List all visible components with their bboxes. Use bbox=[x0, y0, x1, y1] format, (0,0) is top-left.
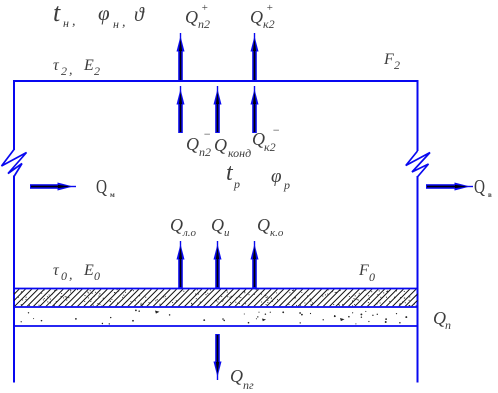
svg-text:E: E bbox=[83, 57, 94, 74]
svg-text:0: 0 bbox=[94, 269, 100, 283]
svg-text:пг: пг bbox=[243, 378, 254, 392]
svg-text:τ: τ bbox=[53, 57, 60, 74]
floor slab: hatched band (concrete) bbox=[0, 289, 436, 308]
svg-text:0: 0 bbox=[369, 270, 375, 284]
label Qv (ventilation flux right) bbox=[474, 176, 492, 199]
wire: right wall upper segment bbox=[417, 80, 419, 151]
svg-text:Q: Q bbox=[257, 215, 270, 235]
label Qko bbox=[257, 215, 284, 239]
label F0 bbox=[358, 262, 375, 284]
arrow Qk.o (up, above floor) bbox=[251, 241, 259, 288]
label t_p (indoor temp) bbox=[226, 160, 240, 191]
wire: left wall upper segment bbox=[13, 80, 15, 150]
svg-text:п2: п2 bbox=[198, 17, 210, 31]
arrow Qkond (up, below cover) bbox=[214, 86, 222, 133]
svg-text:Q: Q bbox=[474, 176, 485, 198]
label Qk2- bbox=[252, 123, 280, 154]
label theta bbox=[134, 4, 145, 26]
svg-text:F: F bbox=[383, 51, 394, 68]
wire: soil band bottom line bbox=[13, 325, 419, 327]
label Qp2- bbox=[186, 127, 211, 159]
floor slab: stipple dots in hatch band bbox=[14, 289, 417, 306]
svg-text:Q: Q bbox=[211, 215, 224, 235]
label tau2, E2 bbox=[53, 57, 100, 78]
svg-text:+: + bbox=[201, 2, 208, 14]
wire: right wall lower segment bbox=[417, 176, 419, 383]
break symbol: left wall zigzag bbox=[2, 150, 27, 177]
svg-text:и: и bbox=[224, 227, 230, 239]
svg-text:Q: Q bbox=[96, 176, 107, 198]
svg-text:0: 0 bbox=[61, 269, 67, 283]
arrow Qi (up, above floor) bbox=[214, 241, 222, 288]
svg-text:р: р bbox=[283, 178, 290, 192]
svg-text:Q: Q bbox=[186, 134, 199, 154]
svg-text:Q: Q bbox=[250, 7, 263, 27]
svg-text:+: + bbox=[266, 2, 273, 14]
label phi_n, (outdoor humidity) bbox=[98, 1, 126, 31]
svg-text:ϑ: ϑ bbox=[134, 4, 145, 26]
svg-text:н: н bbox=[113, 17, 119, 31]
svg-text:конд: конд bbox=[228, 146, 251, 160]
arrow Qp2- (up, below cover) bbox=[177, 86, 185, 133]
label Qpg (ground flux) bbox=[230, 366, 254, 392]
svg-text:в: в bbox=[488, 191, 492, 199]
svg-text:,: , bbox=[69, 63, 73, 78]
svg-text:t: t bbox=[226, 160, 234, 186]
svg-text:Q: Q bbox=[230, 366, 243, 386]
svg-text:2: 2 bbox=[61, 64, 67, 78]
label Qlo bbox=[170, 215, 197, 239]
svg-text:,: , bbox=[69, 268, 73, 283]
svg-text:E: E bbox=[83, 262, 94, 279]
label t_n, (outdoor temp) bbox=[53, 0, 76, 30]
arrow Qp2+ (up, above cover) bbox=[177, 33, 185, 81]
svg-text:−: − bbox=[272, 123, 280, 137]
svg-text:−: − bbox=[203, 127, 211, 141]
label Qp2+ bbox=[185, 2, 210, 31]
svg-text:,: , bbox=[72, 14, 76, 29]
label Qi bbox=[211, 215, 230, 239]
wire: left wall lower segment bbox=[13, 176, 15, 383]
label Qp (floor flux) bbox=[433, 308, 451, 332]
svg-text:φ: φ bbox=[98, 1, 110, 25]
arrow Ql.o (up, above floor) bbox=[177, 241, 185, 288]
wire: floor slab bottom boundary line bbox=[13, 306, 419, 308]
svg-text:2: 2 bbox=[94, 64, 100, 78]
label Qk2+ bbox=[250, 2, 275, 31]
wire: floor slab top boundary line bbox=[13, 288, 419, 290]
svg-text:2: 2 bbox=[394, 58, 400, 72]
svg-text:к2: к2 bbox=[264, 140, 276, 154]
svg-text:Q: Q bbox=[170, 215, 183, 235]
svg-text:t: t bbox=[53, 0, 61, 27]
svg-text:φ: φ bbox=[271, 166, 282, 187]
arrow Qpg (down, below soil) bbox=[214, 334, 222, 380]
break symbol: right wall zigzag bbox=[406, 151, 430, 177]
svg-text:п2: п2 bbox=[199, 145, 211, 159]
svg-text:τ: τ bbox=[53, 262, 60, 279]
arrow Qm (rightward, left side) bbox=[30, 183, 76, 191]
label phi_p (indoor humidity) bbox=[271, 166, 290, 192]
wire: top cover line (tau2/E2 surface) bbox=[13, 80, 419, 82]
svg-text:м: м bbox=[110, 191, 115, 199]
svg-text:F: F bbox=[358, 262, 369, 279]
svg-text:р: р bbox=[233, 177, 240, 191]
svg-text:Q: Q bbox=[214, 135, 227, 155]
arrow Qk2+ (up, above cover) bbox=[251, 33, 259, 81]
svg-text:,: , bbox=[122, 15, 126, 30]
svg-text:л.о: л.о bbox=[182, 227, 197, 239]
svg-text:к2: к2 bbox=[263, 17, 275, 31]
svg-text:к.о: к.о bbox=[270, 227, 284, 239]
svg-text:п: п bbox=[445, 318, 451, 332]
label tau0, E0 bbox=[53, 262, 100, 283]
svg-text:Q: Q bbox=[185, 7, 198, 27]
label Qm (heater flux left) bbox=[96, 176, 115, 199]
arrow Qk2- (up, below cover) bbox=[251, 86, 259, 133]
label F2 bbox=[383, 51, 400, 72]
svg-text:н: н bbox=[63, 16, 69, 30]
soil layer: stippled band bbox=[21, 310, 408, 325]
arrow Qv (rightward, right side) bbox=[426, 183, 473, 191]
label Qkond bbox=[214, 135, 251, 160]
